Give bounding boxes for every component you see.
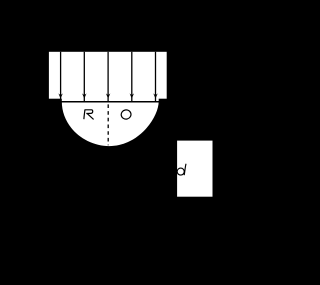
label R (radius) bbox=[84, 110, 94, 120]
distributed load rectangle (white band) bbox=[49, 52, 167, 99]
load arrow 2 bbox=[82, 52, 86, 102]
dashed centerline through O bbox=[107, 104, 109, 145]
semicircle body (flat-top half disc, white) bbox=[62, 98, 159, 146]
small rectangle d (white) bbox=[177, 141, 212, 197]
load arrow 4 bbox=[130, 52, 134, 102]
diameter line (chord) of semicircle bbox=[61, 101, 159, 103]
load arrow 5 bbox=[153, 52, 157, 102]
label O (center) bbox=[120, 109, 131, 120]
load arrow 1 bbox=[58, 52, 62, 102]
load arrow 3 bbox=[106, 52, 110, 102]
label d bbox=[177, 164, 186, 175]
